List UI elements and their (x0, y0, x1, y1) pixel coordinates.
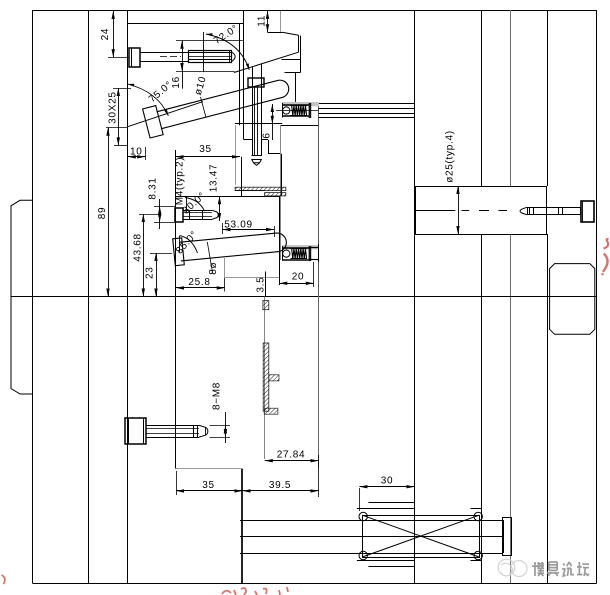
svg-text:23: 23 (145, 266, 156, 279)
svg-text:8ø: 8ø (208, 262, 219, 275)
svg-text:89: 89 (97, 207, 108, 220)
svg-text:35: 35 (199, 144, 212, 155)
svg-text:ø25(typ.4): ø25(typ.4) (444, 130, 455, 183)
svg-text:6: 6 (261, 132, 272, 138)
svg-text:35: 35 (202, 480, 215, 491)
svg-text:27.84: 27.84 (277, 449, 306, 460)
svg-text:53.09: 53.09 (224, 219, 253, 230)
svg-text:30: 30 (381, 476, 394, 487)
svg-text:39.5: 39.5 (269, 480, 291, 491)
svg-text:8.31: 8.31 (148, 177, 159, 199)
svg-text:10: 10 (130, 147, 143, 158)
svg-text:43.68: 43.68 (132, 233, 143, 262)
svg-text:20: 20 (292, 271, 305, 282)
svg-text:13.47: 13.47 (209, 164, 220, 193)
svg-text:24: 24 (100, 28, 111, 41)
svg-text:25.8: 25.8 (188, 277, 210, 288)
svg-text:30X25: 30X25 (107, 91, 118, 123)
svg-text:11: 11 (257, 15, 268, 27)
svg-text:8−M8: 8−M8 (212, 382, 223, 410)
svg-text:3.5: 3.5 (255, 277, 266, 293)
svg-text:M4(typ.2): M4(typ.2) (174, 157, 185, 206)
